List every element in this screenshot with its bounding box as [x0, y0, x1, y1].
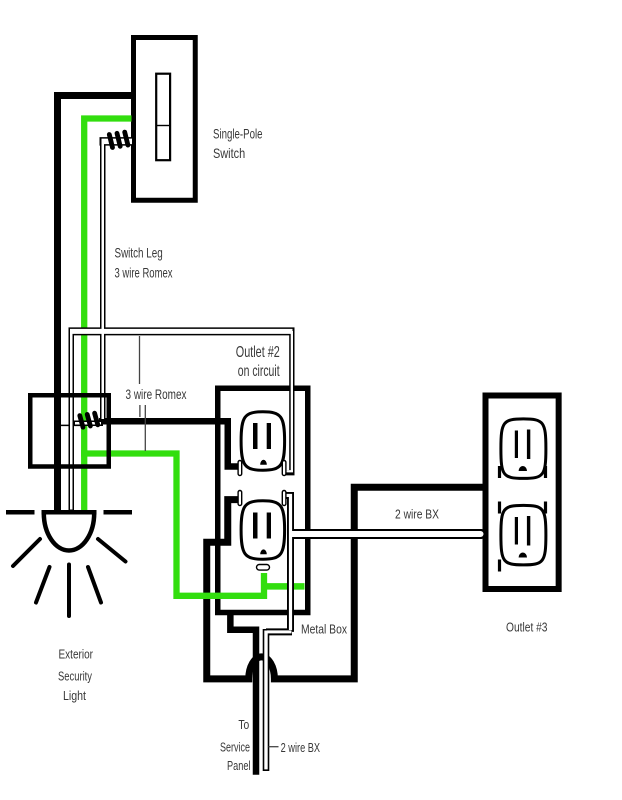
svg-text:Security: Security [58, 669, 92, 684]
svg-text:Light: Light [63, 688, 86, 703]
svg-text:Service: Service [220, 740, 250, 755]
svg-text:To: To [238, 717, 249, 732]
svg-text:Switch: Switch [213, 146, 245, 161]
svg-text:Single-Pole: Single-Pole [213, 127, 263, 142]
svg-text:Outlet #3: Outlet #3 [506, 620, 548, 635]
svg-text:Outlet #2: Outlet #2 [236, 344, 280, 361]
svg-text:Switch Leg: Switch Leg [115, 246, 163, 261]
svg-text:Panel: Panel [227, 758, 251, 773]
svg-text:Exterior: Exterior [59, 647, 94, 662]
svg-text:2 wire BX: 2 wire BX [395, 507, 439, 522]
svg-text:on circuit: on circuit [238, 363, 280, 380]
svg-text:3 wire Romex: 3 wire Romex [115, 266, 173, 281]
svg-text:2 wire BX: 2 wire BX [281, 740, 321, 755]
svg-text:3 wire Romex: 3 wire Romex [126, 387, 187, 402]
svg-text:Metal Box: Metal Box [301, 622, 347, 637]
